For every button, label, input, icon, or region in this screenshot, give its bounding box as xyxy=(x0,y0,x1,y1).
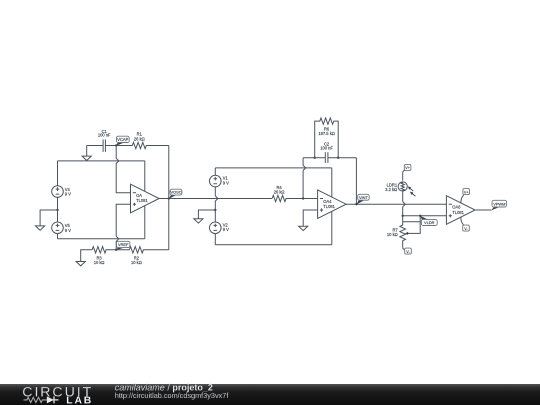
svg-text:100 nF: 100 nF xyxy=(98,133,111,138)
wire OA4 output bus to stage3 (hop at LDR column) xyxy=(346,203,446,205)
voltage source V1 xyxy=(210,168,230,187)
svg-text:3.2 kΩ: 3.2 kΩ xyxy=(385,187,397,192)
svg-text:TL081: TL081 xyxy=(452,210,464,215)
wire C1 left lead xyxy=(87,145,103,147)
svg-text:9 V: 9 V xyxy=(65,192,71,197)
wire LDR bottom to plus row (hop over VINT bus) xyxy=(403,191,406,222)
resistor R1 xyxy=(116,132,169,149)
wire feedback bottom rail xyxy=(303,157,356,159)
svg-text:10 kΩ: 10 kΩ xyxy=(131,260,142,265)
photoresistor LDR1 xyxy=(385,182,415,197)
junction fb right xyxy=(337,157,339,159)
wire OA6 output xyxy=(475,209,491,211)
potentiometer R7 xyxy=(387,222,406,247)
svg-text:VLDR: VLDR xyxy=(424,220,435,225)
svg-text:VOSC: VOSC xyxy=(170,190,181,195)
svg-text:VPWM: VPWM xyxy=(493,201,505,206)
wire plus input row xyxy=(403,215,447,217)
junction VOSC xyxy=(168,197,170,199)
ground (V4/V5 midpoint) xyxy=(36,210,58,230)
resistor R6 xyxy=(315,118,339,158)
svg-text:OA4: OA4 xyxy=(323,199,332,204)
svg-text:VREF: VREF xyxy=(118,242,129,247)
resistor R4 xyxy=(272,185,318,202)
wire -9V rail stage2 xyxy=(215,244,331,246)
node VPWM flag xyxy=(491,200,506,210)
node VOSC flag xyxy=(169,189,182,199)
voltage source V4 xyxy=(52,161,72,210)
wire plus input to VREF (vertical with hop) xyxy=(116,204,130,250)
capacitor C1 xyxy=(98,129,116,152)
svg-text:187.5 kΩ: 187.5 kΩ xyxy=(318,131,335,136)
ground (OA4 plus input) xyxy=(299,226,308,230)
svg-text:VINT: VINT xyxy=(359,195,368,200)
power flag V- (OA6) xyxy=(461,217,470,231)
op-amp OA4 (TL081) xyxy=(318,168,347,245)
power flag V+ (LDR top) xyxy=(403,164,411,180)
wire plus input to ground xyxy=(303,210,317,226)
wire -9V rail stage1 xyxy=(58,238,145,240)
svg-text:LAB: LAB xyxy=(66,396,93,405)
power flag V+ (OA6) xyxy=(461,189,470,203)
svg-text:9 V: 9 V xyxy=(223,227,229,232)
op-amp OA6 (TL081) xyxy=(446,196,475,225)
svg-text:VCAP: VCAP xyxy=(117,137,128,142)
svg-text:100 nF: 100 nF xyxy=(320,145,333,150)
svg-text:9 V: 9 V xyxy=(223,180,229,185)
power flag V- (pot bottom) xyxy=(403,247,412,254)
svg-text:10 kΩ: 10 kΩ xyxy=(387,232,398,237)
svg-text:V+: V+ xyxy=(464,190,469,194)
svg-text:V+: V+ xyxy=(405,166,410,170)
node VLDR flag xyxy=(420,216,437,226)
svg-text:OA: OA xyxy=(136,193,142,198)
junction V4/V5 xyxy=(56,209,58,211)
node VREF flag xyxy=(116,241,130,250)
junction ground branch xyxy=(214,209,216,211)
resistor R3 xyxy=(92,247,116,266)
wire VOSC feedback column xyxy=(168,146,170,250)
wire feedback right vertical to output xyxy=(355,158,357,205)
junction VINT xyxy=(355,203,357,205)
svg-text:TL081: TL081 xyxy=(136,198,148,203)
svg-text:26 kΩ: 26 kΩ xyxy=(274,189,285,194)
wire feedback left vertical (hop over +9V rail) xyxy=(303,158,306,199)
resistor R2 xyxy=(116,247,169,266)
wire pot top link xyxy=(403,216,421,234)
ground (V1/V2 midpoint) xyxy=(194,210,216,223)
svg-text:TL081: TL081 xyxy=(323,204,335,209)
svg-text:26 kΩ: 26 kΩ xyxy=(134,136,145,141)
voltage source V5 xyxy=(52,210,72,239)
junction plus row xyxy=(402,215,404,217)
svg-text:9 V: 9 V xyxy=(65,228,71,233)
op-amp OA (TL081) xyxy=(131,161,160,239)
voltage source V2 xyxy=(210,222,230,245)
capacitor C2 xyxy=(320,142,333,163)
junction feedback/minus xyxy=(302,197,304,199)
potentiometer R7 wiper arrow xyxy=(405,232,408,235)
wire output OA to bus (hop over V1V2 column) xyxy=(159,198,272,200)
junction VCAP xyxy=(115,144,117,146)
junction fb left xyxy=(314,157,316,159)
wire V1 to V2 (hop over bus) xyxy=(215,187,218,222)
svg-text:http://circuitlab.com/cdsgmf3y: http://circuitlab.com/cdsgmf3y3vx7f xyxy=(115,391,230,400)
node VINT flag xyxy=(356,194,369,204)
svg-text:OA6: OA6 xyxy=(452,205,461,210)
node VCAP flag xyxy=(116,136,129,146)
wire VCAP to minus input (vertical with hop) xyxy=(116,146,130,193)
junction VLDR xyxy=(419,215,421,217)
ground (C1 left) xyxy=(82,146,91,161)
wire +9V rail stage2 xyxy=(215,167,331,169)
ground (VREF left) xyxy=(76,250,92,266)
wire +9V rail stage1 xyxy=(58,160,145,162)
svg-text:10 kΩ: 10 kΩ xyxy=(94,260,105,265)
junction VREF xyxy=(115,249,117,251)
